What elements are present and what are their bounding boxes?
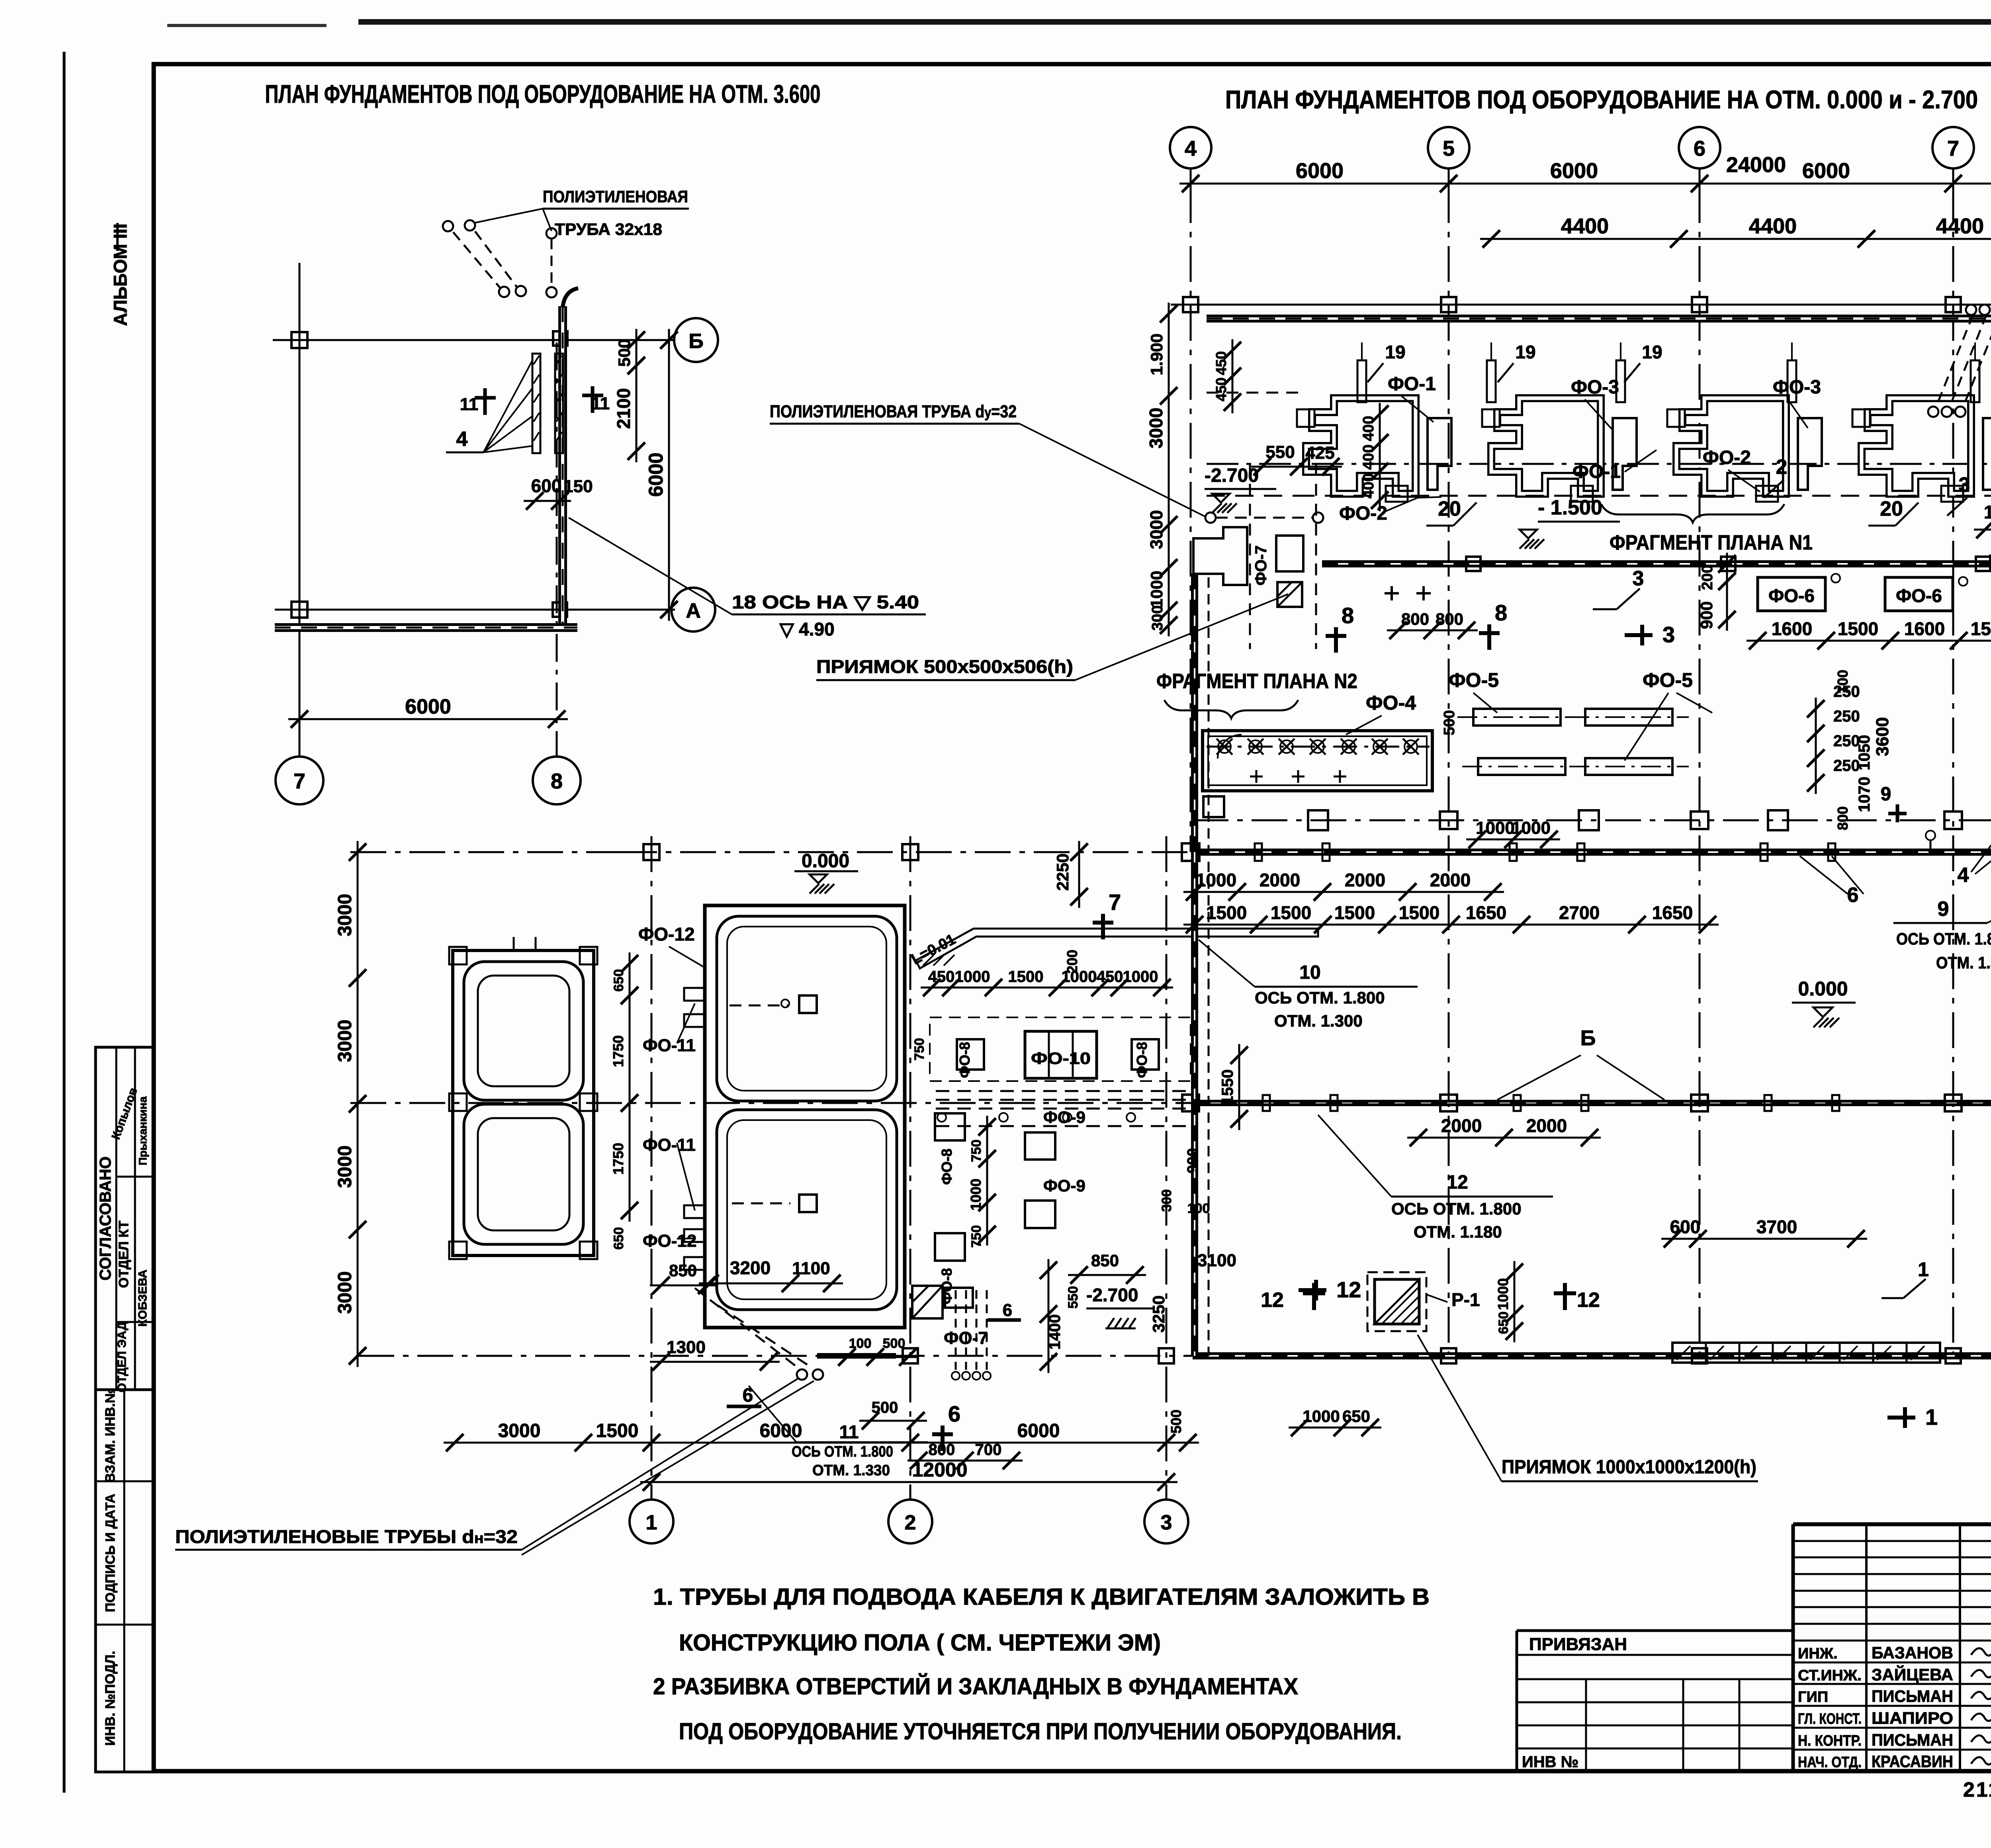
svg-text:3700: 3700 bbox=[1756, 1216, 1797, 1237]
svg-text:1050: 1050 bbox=[1856, 735, 1873, 770]
svg-text:4400: 4400 bbox=[1749, 214, 1797, 238]
svg-text:750: 750 bbox=[969, 1225, 984, 1248]
svg-text:100: 100 bbox=[1835, 670, 1851, 694]
svg-text:1000: 1000 bbox=[968, 1179, 984, 1210]
svg-text:▽ 4.90: ▽ 4.90 bbox=[779, 619, 835, 639]
svg-text:ФРАГМЕНТ ПЛАНА N2: ФРАГМЕНТ ПЛАНА N2 bbox=[1156, 670, 1357, 693]
svg-text:9: 9 bbox=[1881, 784, 1891, 805]
svg-text:21160-03: 21160-03 bbox=[1963, 1778, 1991, 1801]
svg-text:1000: 1000 bbox=[1476, 818, 1515, 838]
svg-text:ФРАГМЕНТ ПЛАНА N1: ФРАГМЕНТ ПЛАНА N1 bbox=[1610, 531, 1813, 554]
svg-text:КРАСАВИН: КРАСАВИН bbox=[1872, 1752, 1953, 1771]
svg-text:-2.700: -2.700 bbox=[1086, 1285, 1138, 1305]
svg-text:6: 6 bbox=[1694, 137, 1705, 160]
svg-text:600: 600 bbox=[531, 475, 562, 496]
svg-text:1000: 1000 bbox=[1062, 968, 1097, 986]
svg-text:20: 20 bbox=[1438, 497, 1461, 520]
svg-text:3250: 3250 bbox=[1149, 1295, 1168, 1332]
svg-text:2100: 2100 bbox=[613, 388, 634, 429]
svg-text:ПОЛИЭТИЛЕНОВЫЕ ТРУБЫ dн=32: ПОЛИЭТИЛЕНОВЫЕ ТРУБЫ dн=32 bbox=[175, 1526, 518, 1547]
svg-text:12000: 12000 bbox=[912, 1459, 967, 1481]
svg-text:ФО-1: ФО-1 bbox=[1572, 461, 1621, 482]
svg-text:2000: 2000 bbox=[1441, 1115, 1482, 1136]
svg-text:ФО-3: ФО-3 bbox=[1571, 377, 1619, 398]
svg-text:Н. КОНТР.: Н. КОНТР. bbox=[1798, 1733, 1862, 1749]
svg-text:0.000: 0.000 bbox=[802, 851, 849, 872]
svg-text:ОСЬ ОТМ. 1.800: ОСЬ ОТМ. 1.800 bbox=[792, 1443, 893, 1460]
svg-text:250: 250 bbox=[1833, 708, 1860, 725]
svg-text:АЛЬБОМ III: АЛЬБОМ III bbox=[110, 223, 131, 326]
svg-text:1500: 1500 bbox=[596, 1420, 639, 1441]
svg-text:ОСЬ ОТМ. 1.800: ОСЬ ОТМ. 1.800 bbox=[1391, 1199, 1522, 1218]
svg-text:3600: 3600 bbox=[1873, 717, 1892, 756]
svg-text:ОТМ. 1.180: ОТМ. 1.180 bbox=[1414, 1222, 1502, 1241]
svg-text:400: 400 bbox=[1360, 444, 1377, 469]
svg-text:2000: 2000 bbox=[1345, 870, 1385, 890]
svg-text:1000: 1000 bbox=[1495, 1278, 1511, 1310]
svg-text:19: 19 bbox=[1385, 342, 1405, 362]
svg-text:3000: 3000 bbox=[334, 1271, 356, 1314]
svg-text:1000: 1000 bbox=[1147, 571, 1166, 608]
svg-text:1750: 1750 bbox=[610, 1035, 626, 1067]
svg-text:ТРУБА 32х18: ТРУБА 32х18 bbox=[555, 220, 662, 239]
svg-text:ПИСЬМАН: ПИСЬМАН bbox=[1872, 1687, 1953, 1705]
svg-text:ФО-3: ФО-3 bbox=[1773, 377, 1821, 398]
svg-text:12: 12 bbox=[1336, 1277, 1361, 1302]
svg-text:2 РАЗБИВКА ОТВЕРСТИЙ И ЗАКЛ: 2 РАЗБИВКА ОТВЕРСТИЙ И ЗАКЛАДНЫХ В ФУНДА… bbox=[653, 1674, 1298, 1699]
svg-text:3000: 3000 bbox=[334, 894, 356, 937]
svg-text:500: 500 bbox=[872, 1399, 898, 1416]
svg-text:ОТДЕЛ ЭАД: ОТДЕЛ ЭАД bbox=[115, 1322, 129, 1392]
svg-text:Прыханкина: Прыханкина bbox=[137, 1096, 149, 1165]
svg-text:- 1.500: - 1.500 bbox=[1538, 496, 1602, 519]
svg-text:1500: 1500 bbox=[1399, 902, 1439, 923]
svg-text:ИНЖ.: ИНЖ. bbox=[1798, 1645, 1838, 1662]
svg-text:3: 3 bbox=[1161, 1511, 1172, 1534]
svg-text:ФО-8: ФО-8 bbox=[956, 1042, 973, 1078]
svg-text:Б: Б bbox=[688, 330, 703, 353]
svg-text:4: 4 bbox=[1958, 864, 1969, 887]
svg-text:ФО-9: ФО-9 bbox=[1043, 1108, 1085, 1126]
svg-text:12: 12 bbox=[1447, 1172, 1468, 1193]
svg-text:ФО-12: ФО-12 bbox=[643, 1231, 696, 1251]
svg-text:ГИП: ГИП bbox=[1798, 1689, 1828, 1705]
svg-text:7: 7 bbox=[1947, 137, 1959, 160]
svg-text:1500: 1500 bbox=[1971, 618, 1991, 639]
svg-text:4400: 4400 bbox=[1936, 214, 1984, 238]
svg-text:2000: 2000 bbox=[1526, 1115, 1567, 1136]
svg-text:1070: 1070 bbox=[1856, 777, 1873, 812]
svg-text:1.900: 1.900 bbox=[1147, 333, 1166, 375]
svg-text:ПЛАН ФУНДАМЕНТОВ ПОД ОБОРУД: ПЛАН ФУНДАМЕНТОВ ПОД ОБОРУДОВАНИЕ НА ОТМ… bbox=[1225, 85, 1978, 114]
svg-text:3: 3 bbox=[1662, 622, 1675, 647]
svg-text:1000: 1000 bbox=[1303, 1407, 1340, 1426]
svg-text:19: 19 bbox=[1515, 342, 1535, 362]
svg-text:24000: 24000 bbox=[1726, 153, 1786, 177]
svg-text:ПРИЯМОК 500х500х506(h): ПРИЯМОК 500х500х506(h) bbox=[816, 656, 1073, 677]
svg-text:6: 6 bbox=[1003, 1300, 1012, 1320]
svg-text:20: 20 bbox=[1880, 497, 1903, 520]
svg-text:1300: 1300 bbox=[667, 1338, 706, 1357]
svg-text:ПОД ОБОРУДОВАНИЕ УТОЧНЯЕТСЯ: ПОД ОБОРУДОВАНИЕ УТОЧНЯЕТСЯ ПРИ ПОЛУЧЕНИ… bbox=[679, 1719, 1402, 1744]
svg-text:1: 1 bbox=[1918, 1258, 1929, 1281]
svg-text:ОТМ. 1.300: ОТМ. 1.300 bbox=[1936, 953, 1991, 972]
svg-text:НАЧ. ОТД.: НАЧ. ОТД. bbox=[1798, 1754, 1862, 1771]
svg-text:ИНВ №: ИНВ № bbox=[1522, 1753, 1578, 1771]
svg-text:3000: 3000 bbox=[498, 1420, 541, 1441]
svg-text:ОСЬ ОТМ. 1.800: ОСЬ ОТМ. 1.800 bbox=[1896, 929, 1991, 948]
svg-text:3000: 3000 bbox=[1147, 510, 1166, 549]
svg-text:7: 7 bbox=[1109, 890, 1121, 915]
svg-text:6000: 6000 bbox=[1550, 159, 1598, 183]
svg-text:Р-1: Р-1 bbox=[1451, 1289, 1480, 1310]
svg-text:ПОЛИЭТИЛЕНОВАЯ: ПОЛИЭТИЛЕНОВАЯ bbox=[543, 187, 688, 206]
svg-text:А: А bbox=[686, 599, 701, 622]
svg-text:6000: 6000 bbox=[1802, 159, 1850, 183]
svg-text:1750: 1750 bbox=[610, 1143, 626, 1175]
svg-text:500: 500 bbox=[615, 339, 634, 367]
svg-text:1000: 1000 bbox=[1123, 968, 1158, 986]
svg-text:ПРИВЯЗАН: ПРИВЯЗАН bbox=[1529, 1635, 1627, 1654]
svg-text:ФО-6: ФО-6 bbox=[1896, 585, 1942, 606]
svg-text:900: 900 bbox=[1697, 601, 1716, 629]
svg-text:3: 3 bbox=[1633, 567, 1644, 590]
svg-text:400: 400 bbox=[1360, 473, 1377, 498]
svg-text:1600: 1600 bbox=[1772, 618, 1812, 639]
svg-text:550: 550 bbox=[1066, 1286, 1081, 1309]
svg-text:800: 800 bbox=[1436, 610, 1463, 628]
svg-text:8: 8 bbox=[1495, 600, 1507, 625]
svg-text:500: 500 bbox=[1168, 1410, 1184, 1433]
svg-text:2250: 2250 bbox=[1053, 853, 1072, 890]
svg-text:850: 850 bbox=[1091, 1251, 1119, 1270]
svg-text:ФО-2: ФО-2 bbox=[1703, 447, 1751, 468]
svg-text:3100: 3100 bbox=[1197, 1251, 1236, 1270]
svg-text:4: 4 bbox=[1185, 137, 1197, 160]
svg-text:800: 800 bbox=[1835, 806, 1851, 830]
svg-text:ПОДПИСЬ И ДАТА: ПОДПИСЬ И ДАТА bbox=[103, 1494, 117, 1612]
svg-text:200: 200 bbox=[1699, 565, 1716, 590]
svg-text:600: 600 bbox=[1670, 1216, 1701, 1237]
svg-text:12: 12 bbox=[1261, 1289, 1284, 1312]
svg-text:500: 500 bbox=[1441, 710, 1458, 735]
svg-text:900: 900 bbox=[1185, 1148, 1201, 1173]
svg-text:450: 450 bbox=[1213, 377, 1229, 401]
svg-text:6000: 6000 bbox=[1296, 159, 1344, 183]
svg-text:ПИСЬМАН: ПИСЬМАН bbox=[1872, 1731, 1953, 1749]
svg-text:СТ.ИНЖ.: СТ.ИНЖ. bbox=[1798, 1667, 1862, 1684]
svg-text:КОБЗЕВА: КОБЗЕВА bbox=[136, 1269, 149, 1326]
svg-text:ФО-10: ФО-10 bbox=[1031, 1049, 1091, 1068]
svg-text:4400: 4400 bbox=[1561, 214, 1609, 238]
svg-text:1100: 1100 bbox=[792, 1259, 830, 1278]
svg-text:1500: 1500 bbox=[1838, 618, 1878, 639]
svg-text:650: 650 bbox=[1496, 1312, 1511, 1334]
svg-text:4: 4 bbox=[456, 428, 468, 451]
svg-text:650: 650 bbox=[611, 1227, 626, 1250]
svg-text:400: 400 bbox=[1360, 416, 1377, 441]
svg-text:3000: 3000 bbox=[1146, 408, 1166, 448]
svg-text:2000: 2000 bbox=[1260, 870, 1300, 890]
svg-text:100: 100 bbox=[1187, 1201, 1210, 1216]
svg-text:1500: 1500 bbox=[1334, 902, 1375, 923]
svg-text:ГЛ. КОНСТ.: ГЛ. КОНСТ. bbox=[1798, 1711, 1862, 1727]
svg-text:1500: 1500 bbox=[1206, 902, 1247, 923]
svg-text:ФО-5: ФО-5 bbox=[1449, 669, 1499, 691]
svg-text:9: 9 bbox=[1938, 898, 1949, 921]
svg-text:ФО-7: ФО-7 bbox=[1252, 546, 1270, 586]
svg-text:8: 8 bbox=[551, 769, 563, 793]
svg-text:1600: 1600 bbox=[1904, 618, 1945, 639]
svg-text:1500: 1500 bbox=[1008, 968, 1044, 986]
svg-text:5: 5 bbox=[1443, 137, 1455, 160]
svg-text:ФО-12: ФО-12 bbox=[638, 924, 695, 945]
svg-text:18 ОСЬ НА ▽ 5.40: 18 ОСЬ НА ▽ 5.40 bbox=[732, 592, 919, 612]
svg-text:750: 750 bbox=[912, 1038, 927, 1061]
svg-text:6000: 6000 bbox=[645, 452, 667, 497]
svg-text:2: 2 bbox=[905, 1511, 916, 1534]
svg-text:1650: 1650 bbox=[1652, 902, 1693, 923]
svg-text:ПОЛИЭТИЛЕНОВАЯ ТРУБА dу=32: ПОЛИЭТИЛЕНОВАЯ ТРУБА dу=32 bbox=[770, 402, 1017, 421]
svg-text:1000: 1000 bbox=[955, 968, 990, 986]
svg-text:2000: 2000 bbox=[1430, 870, 1471, 890]
svg-text:ВЗАМ. ИНВ.№: ВЗАМ. ИНВ.№ bbox=[103, 1388, 118, 1483]
svg-text:1205: 1205 bbox=[1984, 502, 1991, 522]
svg-text:300: 300 bbox=[1149, 605, 1166, 630]
svg-text:ИНВ. №ПОДЛ.: ИНВ. №ПОДЛ. bbox=[103, 1651, 118, 1746]
svg-text:1: 1 bbox=[1925, 1404, 1938, 1430]
svg-text:1: 1 bbox=[646, 1511, 657, 1534]
svg-text:450: 450 bbox=[1097, 968, 1123, 986]
svg-text:1500: 1500 bbox=[1271, 902, 1311, 923]
svg-text:ФО-1: ФО-1 bbox=[1388, 374, 1436, 395]
svg-text:2: 2 bbox=[1776, 456, 1788, 479]
svg-text:0.000: 0.000 bbox=[1798, 978, 1848, 1000]
svg-text:СОГЛАСОВАНО: СОГЛАСОВАНО bbox=[97, 1156, 114, 1280]
svg-text:650: 650 bbox=[1342, 1407, 1370, 1426]
svg-text:ПРИЯМОК 1000х1000х1200(h): ПРИЯМОК 1000х1000х1200(h) bbox=[1502, 1457, 1756, 1478]
svg-text:150: 150 bbox=[563, 477, 593, 496]
svg-text:650: 650 bbox=[611, 969, 626, 992]
svg-text:ЗАЙЦЕВА: ЗАЙЦЕВА bbox=[1872, 1665, 1953, 1684]
svg-text:ФО-6: ФО-6 bbox=[1768, 585, 1815, 606]
svg-text:8: 8 bbox=[1342, 603, 1354, 628]
svg-text:3: 3 bbox=[1959, 473, 1970, 497]
svg-text:3200: 3200 bbox=[730, 1257, 771, 1278]
svg-text:7: 7 bbox=[293, 769, 305, 793]
svg-text:700: 700 bbox=[975, 1441, 1002, 1459]
svg-text:500: 500 bbox=[883, 1336, 906, 1351]
svg-text:Б: Б bbox=[1580, 1026, 1596, 1050]
svg-text:ОТДЕЛ КТ: ОТДЕЛ КТ bbox=[116, 1220, 131, 1288]
svg-text:750: 750 bbox=[969, 1140, 984, 1162]
svg-text:ОСЬ ОТМ. 1.800: ОСЬ ОТМ. 1.800 bbox=[1255, 988, 1385, 1007]
svg-text:10: 10 bbox=[1299, 962, 1320, 983]
svg-text:ФО-8: ФО-8 bbox=[939, 1149, 955, 1185]
svg-text:100: 100 bbox=[849, 1336, 872, 1351]
svg-text:1650: 1650 bbox=[1466, 902, 1506, 923]
svg-text:1000: 1000 bbox=[1196, 870, 1236, 890]
svg-text:1000: 1000 bbox=[1512, 818, 1551, 838]
svg-text:800: 800 bbox=[1401, 610, 1429, 628]
svg-text:ОТМ. 1.300: ОТМ. 1.300 bbox=[1274, 1011, 1363, 1030]
svg-text:ОТМ. 1.330: ОТМ. 1.330 bbox=[812, 1462, 890, 1479]
svg-text:450: 450 bbox=[1213, 351, 1229, 375]
svg-text:6: 6 bbox=[948, 1401, 960, 1426]
svg-text:11: 11 bbox=[839, 1422, 859, 1442]
svg-text:КОНСТРУКЦИЮ ПОЛА ( СМ. ЧЕРТЕЖ: КОНСТРУКЦИЮ ПОЛА ( СМ. ЧЕРТЕЖИ ЭМ) bbox=[679, 1630, 1161, 1656]
svg-text:450: 450 bbox=[928, 968, 955, 986]
svg-text:6000: 6000 bbox=[405, 695, 451, 718]
svg-text:ПЛАН ФУНДАМЕНТОВ ПОД ОБОРУД: ПЛАН ФУНДАМЕНТОВ ПОД ОБОРУДОВАНИЕ НА ОТМ… bbox=[265, 80, 821, 108]
svg-text:12: 12 bbox=[1577, 1289, 1600, 1312]
svg-text:425: 425 bbox=[1305, 443, 1334, 463]
svg-text:3000: 3000 bbox=[334, 1146, 356, 1188]
svg-text:2700: 2700 bbox=[1559, 902, 1600, 923]
svg-text:ФО-4: ФО-4 bbox=[1366, 692, 1416, 714]
svg-text:850: 850 bbox=[669, 1261, 697, 1280]
svg-text:БАЗАНОВ: БАЗАНОВ bbox=[1872, 1643, 1953, 1662]
svg-text:1550: 1550 bbox=[1219, 1070, 1236, 1105]
svg-text:300: 300 bbox=[1159, 1189, 1174, 1212]
svg-text:1. ТРУБЫ ДЛЯ ПОДВОДА КАБЕЛЯ: 1. ТРУБЫ ДЛЯ ПОДВОДА КАБЕЛЯ К ДВИГАТЕЛЯМ… bbox=[653, 1584, 1430, 1610]
svg-text:19: 19 bbox=[1642, 342, 1662, 362]
svg-text:ФО-5: ФО-5 bbox=[1643, 669, 1693, 691]
svg-text:6000: 6000 bbox=[1017, 1420, 1060, 1441]
svg-text:ШАПИРО: ШАПИРО bbox=[1872, 1709, 1953, 1727]
svg-text:ФО-8: ФО-8 bbox=[1134, 1042, 1150, 1078]
svg-text:3000: 3000 bbox=[334, 1020, 356, 1062]
svg-text:ФО-9: ФО-9 bbox=[1043, 1176, 1085, 1195]
